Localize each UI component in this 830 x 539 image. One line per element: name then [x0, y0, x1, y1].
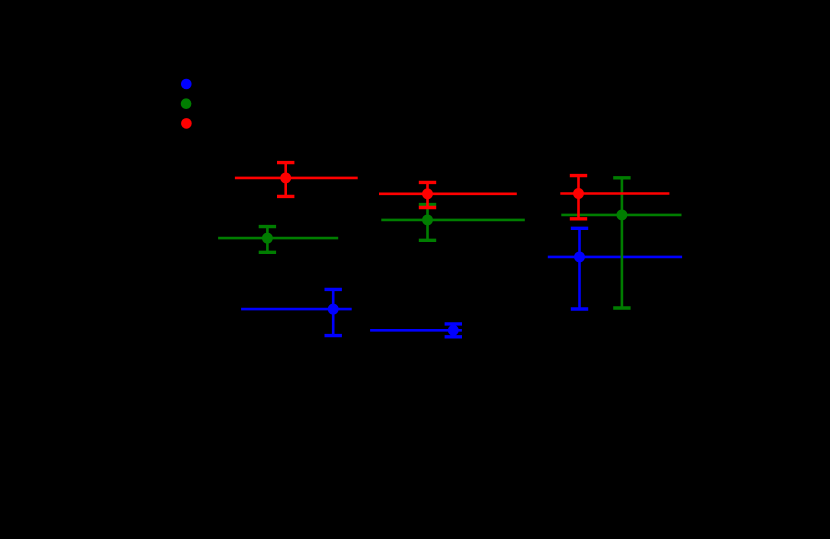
blue point 2 top cap [445, 322, 462, 325]
blue point 1 y-error line [332, 289, 335, 335]
red point 3 bottom cap [570, 217, 587, 220]
green point 1 bottom cap [259, 251, 276, 254]
blue point 3 x-error line [548, 256, 682, 259]
green point 1 marker [262, 233, 273, 244]
blue point 1 marker [328, 304, 339, 315]
blue point 1 bottom cap [325, 334, 342, 337]
blue point 2 bottom cap [445, 335, 462, 338]
green point 1 y-error line [266, 227, 269, 253]
blue point 3 y-error line [578, 228, 581, 309]
red point 1 y-error line [284, 163, 287, 197]
blue point 3 top cap [571, 227, 588, 230]
blue point 1 x-error line [241, 308, 352, 311]
red point 2 x-error line [379, 193, 517, 196]
green point 2 y-error line [426, 205, 429, 241]
red point 3 y-error line [577, 176, 580, 219]
green series [218, 178, 681, 308]
blue point 3 marker [574, 251, 585, 262]
red point 1 x-error line [235, 177, 358, 180]
red point 1 marker [280, 172, 291, 183]
blue point 3 bottom cap [571, 307, 588, 310]
green point 3 top cap [613, 176, 630, 179]
green point 3 x-error line [561, 214, 681, 217]
green point 3 marker [616, 209, 627, 220]
green point 2 top cap [419, 203, 436, 206]
green point 2 x-error line [381, 219, 525, 222]
red point 2 top cap [419, 181, 436, 184]
blue point 2 x-error line [370, 329, 462, 332]
green point 2 marker [422, 214, 433, 225]
blue point 2 y-error line [452, 324, 455, 337]
blue point 1 top cap [325, 288, 342, 291]
red point 1 top cap [277, 161, 294, 164]
red point 2 y-error line [426, 182, 429, 207]
green point 3 bottom cap [613, 306, 630, 309]
legend marker blue [181, 79, 192, 90]
red point 3 marker [573, 188, 584, 199]
red point 2 bottom cap [419, 206, 436, 209]
green point 1 top cap [259, 225, 276, 228]
legend marker red [181, 118, 192, 129]
green point 2 bottom cap [419, 239, 436, 242]
red series [235, 163, 670, 219]
red point 3 top cap [570, 174, 587, 177]
green point 1 x-error line [218, 237, 338, 240]
blue point 2 marker [448, 325, 459, 336]
blue series [241, 228, 682, 336]
green point 3 y-error line [621, 178, 624, 308]
red point 1 bottom cap [277, 195, 294, 198]
red point 2 marker [422, 188, 433, 199]
legend marker green [181, 98, 192, 109]
red point 3 x-error line [560, 192, 669, 195]
